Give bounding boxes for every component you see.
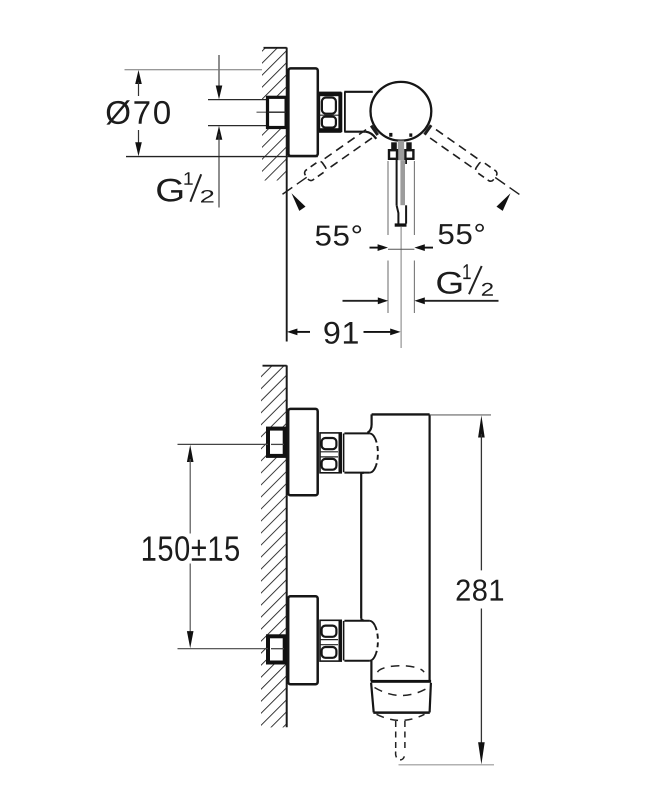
- upper union body + dome: [344, 433, 377, 472]
- collar tick dots on sphere: [389, 133, 392, 137]
- 150±15 dimension line: [187, 445, 194, 649]
- lower union washer: [343, 621, 345, 661]
- upper union nut: [320, 433, 341, 473]
- lever stem (grey): [398, 141, 404, 161]
- supply pipe (white body over hatch): [255, 101, 268, 125]
- lower union body + dome: [344, 621, 378, 661]
- faucet body (bottom view): [361, 414, 429, 681]
- centre line below lever: [400, 227, 402, 348]
- lower pipe fitting behind wall: [268, 636, 285, 662]
- 150±15 extension lines / pipe centre lines: [178, 443, 269, 445]
- label Ø70: [106, 100, 169, 124]
- lever (vertical position): [395, 160, 407, 227]
- G 1/2 dimension (upper left): [216, 55, 223, 208]
- hidden outlet passage (dashed arc inside body bottom): [378, 666, 425, 672]
- handle swing dashed lever LEFT 55°: [277, 125, 388, 215]
- spherical body (top view): [371, 82, 432, 141]
- label G 1/2 (right): [437, 264, 493, 295]
- extension lines below handle: [388, 161, 414, 313]
- upper escutcheon (bottom view): [288, 409, 318, 495]
- label 91: [324, 322, 357, 344]
- pipe fitting (hex nipple) behind wall: [268, 97, 287, 127]
- wall (hatched section, bottom view): [261, 365, 287, 727]
- supply pipe lines behind wall: [208, 99, 267, 101]
- hose nipple (dashed): [396, 721, 406, 760]
- hidden outlet mouth (dashed arc under collar): [377, 714, 425, 720]
- Ø70 dimension: [125, 70, 318, 157]
- handle swing dashed lever RIGHT 55°: [414, 125, 525, 215]
- 91 dimension: [287, 329, 401, 336]
- upper union washer: [343, 434, 345, 473]
- G 1/2 dimension (lower, outlet thread): [343, 297, 499, 304]
- wall face line / extension line for 91 dim: [286, 48, 288, 342]
- labels 55°: [316, 225, 361, 246]
- lever collar: [389, 142, 413, 159]
- washer band: [338, 92, 342, 132]
- escutcheon (top view): [288, 68, 317, 156]
- lower union nut: [320, 620, 341, 661]
- pipe centre line: [257, 111, 287, 113]
- wall face line: [286, 365, 288, 727]
- union nut (top view): [319, 92, 340, 132]
- valve body cylinder (top view): [344, 92, 376, 139]
- shower outlet collar: [371, 680, 431, 713]
- wall (hatched section, top view): [262, 48, 287, 181]
- upper pipe fitting behind wall: [268, 429, 285, 456]
- label 281: [457, 579, 504, 601]
- 281 dimension: [399, 415, 495, 765]
- 55° inward arrows row: [370, 244, 434, 251]
- label G 1/2 (upper): [157, 172, 213, 202]
- lower escutcheon (bottom view): [288, 596, 318, 684]
- label 150±15: [143, 536, 239, 561]
